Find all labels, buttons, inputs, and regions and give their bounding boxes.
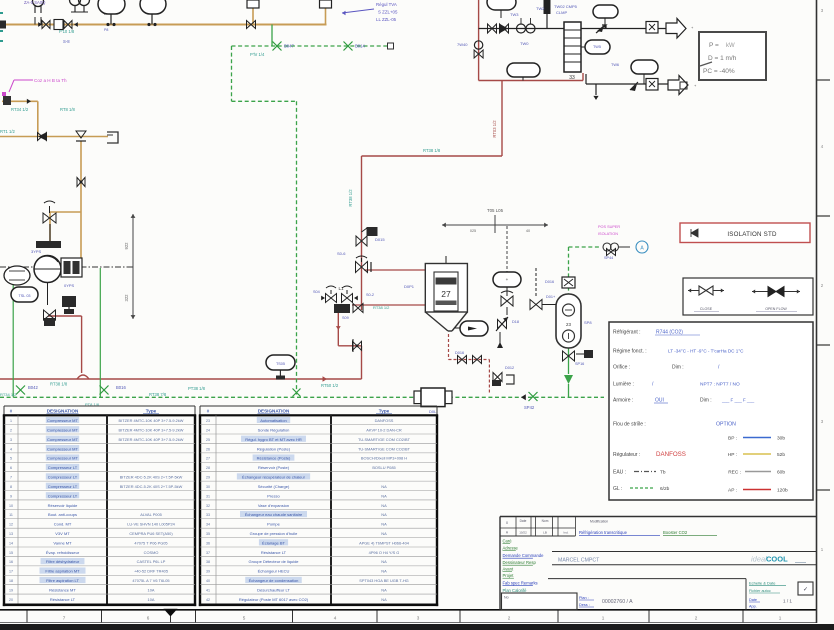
svg-text:Booster CO2: Booster CO2 [663, 530, 688, 535]
svg-text:REC :: REC : [728, 470, 741, 476]
svg-text:NA: NA [381, 531, 387, 536]
svg-text:Avant: Avant [503, 567, 514, 572]
svg-text:10A: 10A [148, 587, 155, 592]
svg-text:BITZER 4MTC-10K 40P 3+7.5-9.2k: BITZER 4MTC-10K 40P 3+7.5-9.2kW [119, 437, 184, 442]
svg-text:No: No [504, 596, 509, 600]
svg-text:9: 9 [10, 494, 12, 498]
svg-text:Filtre aspiration LT: Filtre aspiration LT [46, 578, 79, 583]
svg-text:Orifice :: Orifice : [613, 365, 630, 371]
svg-text:34: 34 [206, 523, 210, 527]
svg-text:1: 1 [602, 616, 605, 621]
svg-text:24: 24 [206, 428, 210, 432]
svg-text:RT8 1/8: RT8 1/8 [60, 107, 75, 112]
svg-text:Armoire :: Armoire : [613, 398, 633, 404]
svg-text:Plan :: Plan : [579, 596, 589, 600]
svg-text:NA: NA [381, 503, 387, 508]
svg-text:Date: Date [520, 519, 527, 523]
svg-text:Type: Type [379, 408, 390, 413]
svg-text:ZA-0 SA0Q: ZA-0 SA0Q [24, 0, 46, 5]
svg-text:Lumière :: Lumière : [613, 382, 634, 388]
svg-text:42: 42 [206, 598, 210, 602]
svg-text:TW5: TW5 [593, 45, 601, 49]
svg-text:Pompe: Pompe [267, 522, 280, 527]
svg-text:+40-52 DRF TR405: +40-52 DRF TR405 [134, 569, 168, 574]
svg-text:31: 31 [206, 494, 210, 498]
svg-text:ALVAL P005: ALVAL P005 [140, 512, 162, 517]
svg-text:0YPS: 0YPS [64, 283, 75, 288]
svg-text:15: 15 [9, 551, 13, 555]
svg-text:17: 17 [9, 570, 13, 574]
svg-text:DANFOSS: DANFOSS [375, 418, 394, 423]
svg-text:TW2: TW2 [536, 6, 545, 11]
svg-text:38: 38 [206, 560, 210, 564]
svg-text:4: 4 [10, 447, 12, 451]
svg-text:NA: NA [381, 522, 387, 527]
svg-text:25: 25 [206, 438, 210, 442]
svg-text:27: 27 [206, 457, 210, 461]
svg-text:S0-2: S0-2 [366, 293, 374, 297]
svg-text:Compresseur LT: Compresseur LT [48, 484, 78, 489]
svg-text:NA: NA [381, 493, 387, 498]
svg-text:23: 23 [566, 322, 571, 327]
svg-text:Tb: Tb [660, 470, 666, 476]
svg-text:SP42: SP42 [524, 405, 535, 410]
svg-text:B016: B016 [116, 385, 126, 390]
svg-text:DANFOSS: DANFOSS [656, 451, 686, 458]
svg-text:BITZER 4MTC-10K 40P 3+7.5-9.2k: BITZER 4MTC-10K 40P 3+7.5-9.2kW [119, 418, 184, 423]
svg-text:P'10 1/8: P'10 1/8 [59, 29, 75, 34]
svg-text:Nom: Nom [542, 519, 549, 523]
svg-text:D015: D015 [375, 237, 385, 242]
svg-text:Régime fonct. :: Régime fonct. : [613, 349, 647, 355]
svg-text:Résistance MT: Résistance MT [49, 587, 76, 592]
svg-text:SPT043 HGA BE UGB T-HG: SPT043 HGA BE UGB T-HG [359, 578, 408, 583]
svg-text:36: 36 [206, 541, 210, 545]
svg-text:RT38 1/8: RT38 1/8 [50, 382, 68, 387]
svg-text:CEMPRA PU6 SET(A50): CEMPRA PU6 SET(A50) [129, 531, 173, 536]
svg-text:OUI: OUI [655, 398, 664, 404]
svg-text:Type: Type [146, 408, 157, 413]
svg-text:Compresseur LT: Compresseur LT [48, 465, 78, 470]
svg-text:30b: 30b [777, 436, 785, 442]
svg-text:CLMP: CLMP [556, 10, 567, 15]
svg-text:COSMO: COSMO [144, 550, 159, 555]
svg-text:Filtre aspiration MT: Filtre aspiration MT [45, 569, 80, 574]
svg-text:Ind.: Ind. [563, 531, 568, 535]
svg-text:Dim :: Dim : [700, 398, 712, 404]
svg-text:2: 2 [508, 616, 511, 621]
svg-text:12: 12 [9, 523, 13, 527]
svg-text:Fichier autoc: Fichier autoc [749, 589, 771, 593]
svg-text:TSL 03: TSL 03 [18, 294, 30, 298]
svg-text:6: 6 [147, 616, 150, 621]
svg-text:ISOLATION: ISOLATION [598, 232, 618, 236]
svg-text:RT03 1/2: RT03 1/2 [492, 120, 497, 138]
svg-text:6: 6 [10, 466, 12, 470]
svg-text:B014: B014 [355, 44, 365, 49]
svg-text:Vanne MT: Vanne MT [53, 540, 72, 545]
svg-text:D016: D016 [545, 280, 554, 284]
svg-text:26: 26 [206, 447, 210, 451]
svg-text:Compresseur LT: Compresseur LT [48, 493, 78, 498]
svg-text:D18: D18 [512, 320, 519, 324]
svg-text:Cond. MT: Cond. MT [54, 522, 72, 527]
svg-text:3: 3 [10, 438, 12, 442]
svg-text:LL ZZL-05: LL ZZL-05 [376, 17, 397, 22]
svg-text:RT1 1/2: RT1 1/2 [0, 129, 15, 134]
svg-text:16: 16 [9, 560, 13, 564]
svg-text:Réfrigération transcritique: Réfrigération transcritique [579, 530, 628, 535]
svg-text:47075 T P06 PG05: 47075 T P06 PG05 [134, 540, 167, 545]
svg-text:40: 40 [206, 579, 210, 583]
svg-text:NA: NA [381, 597, 387, 602]
svg-text:OPEN FLOW: OPEN FLOW [765, 307, 787, 311]
svg-text:SP44: SP44 [604, 256, 613, 260]
svg-text:5: 5 [243, 616, 246, 621]
svg-text:Régulation (Poste): Régulation (Poste) [257, 446, 291, 451]
svg-text:Régulateur (Poste MT 6017 avec: Régulateur (Poste MT 6017 avec CO2) [239, 597, 309, 602]
svg-text:ideal: ideal [751, 555, 767, 564]
svg-text:Compresseur MT: Compresseur MT [47, 418, 78, 423]
svg-text:BITZER 4DC-5.2K 40S 2+7.5P-5kW: BITZER 4DC-5.2K 40S 2+7.5P-5kW [120, 475, 183, 480]
svg-text:P =: P = [709, 42, 719, 49]
svg-text:Sonde Régulation: Sonde Régulation [258, 427, 290, 432]
svg-text:B042: B042 [28, 385, 38, 390]
svg-text:kW: kW [726, 43, 735, 49]
svg-text:5: 5 [10, 457, 12, 461]
svg-text:+: + [506, 277, 509, 282]
svg-text:33: 33 [569, 75, 575, 81]
svg-text:D01+: D01+ [546, 295, 556, 299]
svg-text:DESIGNATION: DESIGNATION [258, 408, 290, 413]
svg-text:30: 30 [206, 485, 210, 489]
svg-text:BP :: BP : [728, 436, 737, 442]
svg-text:Vase d'expansion: Vase d'expansion [258, 503, 289, 508]
svg-text:COOL: COOL [766, 555, 788, 564]
svg-text:RT38 1/8: RT38 1/8 [423, 148, 441, 153]
svg-text:6/2b: 6/2b [660, 486, 670, 492]
svg-text:47075L A 7 V6 T6L05: 47075L A 7 V6 T6L05 [132, 578, 169, 583]
svg-text:T05 L05: T05 L05 [487, 208, 504, 213]
svg-text:___ F ___ F ___: ___ F ___ F ___ [721, 398, 755, 403]
svg-text:7: 7 [63, 616, 66, 621]
svg-text:TW3: TW3 [510, 12, 519, 17]
svg-text:P8: P8 [104, 28, 108, 32]
svg-text:MARCEL CMPCT: MARCEL CMPCT [558, 558, 600, 564]
svg-text:P'hr 1/4: P'hr 1/4 [250, 52, 265, 57]
svg-text:APGE 4) TbMPST H066-404: APGE 4) TbMPST H066-404 [359, 540, 410, 545]
svg-text:RT38 1/2: RT38 1/2 [348, 189, 353, 207]
svg-text:52b: 52b [777, 452, 785, 458]
svg-text:Presso: Presso [267, 493, 280, 498]
svg-text:Coz a H B ta Th: Coz a H B ta Th [34, 78, 67, 83]
svg-text:1: 1 [779, 616, 782, 621]
svg-text:S04: S04 [313, 290, 320, 294]
svg-text:Groupe de pression d'huile: Groupe de pression d'huile [250, 531, 298, 536]
svg-text:BOSCH/Dixell MP3+098 H: BOSCH/Dixell MP3+098 H [361, 456, 407, 461]
svg-text:SP16: SP16 [575, 362, 584, 366]
svg-text:NA: NA [381, 587, 387, 592]
svg-text:Date: Date [749, 598, 757, 602]
svg-text:2: 2 [10, 428, 12, 432]
svg-text:S ZZL+05: S ZZL+05 [378, 10, 398, 15]
svg-text:RT34 1/2: RT34 1/2 [11, 107, 29, 112]
svg-text:Compresseur MT: Compresseur MT [47, 427, 78, 432]
svg-text:App.: App. [749, 605, 757, 609]
svg-text:Évap. refroidisseur: Évap. refroidisseur [46, 550, 80, 555]
svg-text:AP :: AP : [728, 488, 737, 494]
svg-text:NA: NA [381, 559, 387, 564]
svg-text:D0L: D0L [429, 409, 437, 414]
svg-text:27: 27 [441, 289, 451, 299]
svg-text:SP8: SP8 [584, 320, 592, 325]
svg-text:Sécurité (Charge): Sécurité (Charge) [258, 484, 290, 489]
svg-text:Dess :: Dess : [579, 603, 590, 607]
svg-text:Régul. hygro BT et MT avec HR: Régul. hygro BT et MT avec HR [245, 437, 302, 442]
svg-text:DESIGNATION: DESIGNATION [47, 408, 79, 413]
svg-text:4P96 O H4 Y/S G: 4P96 O H4 Y/S G [369, 550, 400, 555]
svg-text:29: 29 [206, 476, 210, 480]
svg-text:Réservoir liquide: Réservoir liquide [48, 503, 79, 508]
svg-text:Echelle & Date: Echelle & Date [749, 581, 776, 586]
svg-text:Échangeur de condensation: Échangeur de condensation [249, 578, 299, 583]
svg-text:00002760 / A: 00002760 / A [602, 599, 633, 605]
svg-text:Plan Calorifé: Plan Calorifé [503, 588, 528, 593]
svg-text:23: 23 [206, 419, 210, 423]
svg-text:37: 37 [206, 551, 210, 555]
svg-text:D0P1: D0P1 [404, 284, 415, 289]
svg-text:Régul TVA: Régul TVA [376, 2, 397, 7]
svg-text:TS05: TS05 [276, 362, 285, 366]
svg-text:RT38 7/8: RT38 7/8 [149, 392, 167, 397]
svg-text:R744 (CO2): R744 (CO2) [656, 330, 683, 336]
svg-text:S-8: S-8 [63, 39, 70, 44]
svg-text:LU-VE SHVN 140 L005P24: LU-VE SHVN 140 L005P24 [127, 522, 175, 527]
svg-text:CASTEL P6L LP: CASTEL P6L LP [137, 559, 166, 564]
svg-text:13: 13 [9, 532, 13, 536]
svg-text:Fab spec Remarks: Fab spec Remarks [503, 581, 538, 586]
svg-text:2: 2 [695, 616, 698, 621]
svg-text:4: 4 [334, 616, 337, 621]
svg-text:TW0: TW0 [520, 41, 529, 46]
svg-text:Éclairage BT: Éclairage BT [262, 540, 285, 545]
svg-text:GL :: GL : [613, 486, 622, 492]
svg-text:Compresseur LT: Compresseur LT [48, 475, 78, 480]
svg-text:✓: ✓ [803, 587, 808, 593]
svg-text:HP :: HP : [728, 452, 737, 458]
svg-text:Filtre déshydrateur: Filtre déshydrateur [46, 559, 80, 564]
svg-text:Compresseur MT: Compresseur MT [47, 437, 78, 442]
svg-text:Demande Commande: Demande Commande [503, 553, 545, 558]
svg-text:Résistance LT: Résistance LT [50, 597, 76, 602]
svg-text:Échangeur HECU: Échangeur HECU [258, 569, 290, 574]
svg-text:41: 41 [206, 588, 210, 592]
svg-text:Échangeur eau chaude sanitaire: Échangeur eau chaude sanitaire [245, 512, 303, 517]
svg-text:Flou de striîle :: Flou de striîle : [613, 422, 646, 428]
svg-text:28: 28 [206, 466, 210, 470]
svg-text:1 / 1: 1 / 1 [783, 599, 792, 604]
svg-text:18: 18 [9, 579, 13, 583]
svg-text:10/22: 10/22 [519, 531, 527, 535]
svg-text:Modification: Modification [590, 520, 608, 524]
svg-text:BITZER 4MTC-10K 40P 3+7.5-9.2k: BITZER 4MTC-10K 40P 3+7.5-9.2kW [119, 427, 184, 432]
svg-text:39: 39 [206, 570, 210, 574]
svg-text:NA: NA [381, 484, 387, 489]
svg-text:NPT7 : NPT7 / NO: NPT7 : NPT7 / NO [700, 382, 740, 388]
svg-text:120b: 120b [777, 488, 788, 494]
svg-text:TW6: TW6 [611, 63, 619, 67]
svg-text:TU-SMART/GE COM CO2/BT: TU-SMART/GE COM CO2/BT [358, 446, 411, 451]
svg-text:Résistance (Poste): Résistance (Poste) [257, 456, 291, 461]
svg-text:ISOLATION STD: ISOLATION STD [727, 231, 777, 238]
svg-text:EAU :: EAU : [613, 470, 626, 476]
svg-text:D = 1 m/h: D = 1 m/h [708, 55, 737, 62]
svg-text:10A: 10A [148, 597, 155, 602]
svg-text:Compresseur MT: Compresseur MT [47, 456, 78, 461]
svg-text:Résistance LT: Résistance LT [261, 550, 287, 555]
svg-text:33: 33 [206, 513, 210, 517]
svg-text:RT50 1/2: RT50 1/2 [321, 383, 339, 388]
svg-text:AKVP 10-2 DAN-CR: AKVP 10-2 DAN-CR [366, 427, 402, 432]
svg-text:D012: D012 [505, 366, 514, 370]
svg-text:40: 40 [526, 229, 530, 233]
svg-text:025: 025 [470, 229, 476, 233]
svg-text:Échangeur récupérateur de chal: Échangeur récupérateur de chaleur [242, 475, 306, 480]
svg-text:Projet: Projet [503, 573, 515, 578]
svg-text:PC = -40%: PC = -40% [703, 68, 735, 75]
svg-text:D016: D016 [455, 351, 464, 355]
svg-text:14: 14 [9, 541, 13, 545]
svg-text:B047: B047 [284, 44, 294, 49]
svg-text:0: 0 [506, 521, 508, 525]
svg-text:Compresseur MT: Compresseur MT [47, 446, 78, 451]
svg-text:19: 19 [9, 588, 13, 592]
svg-text:Groupe Détecteur de liquide: Groupe Détecteur de liquide [248, 559, 299, 564]
svg-text:10: 10 [9, 504, 13, 508]
svg-text:TU-SMART/GE COM CO2/BT: TU-SMART/GE COM CO2/BT [358, 437, 411, 442]
svg-text:OPTION: OPTION [716, 422, 736, 428]
svg-text:CLOSE: CLOSE [700, 307, 713, 311]
svg-text:S09: S09 [342, 316, 349, 320]
svg-text:3: 3 [417, 616, 420, 621]
svg-text:NA: NA [381, 569, 387, 574]
svg-text:8: 8 [10, 485, 12, 489]
svg-text:11: 11 [9, 513, 13, 517]
svg-text:POS SUPER: POS SUPER [598, 225, 620, 229]
svg-text:Réfrigérant :: Réfrigérant : [613, 330, 641, 336]
svg-text:Adresse: Adresse [503, 546, 519, 551]
svg-text:1: 1 [10, 419, 12, 423]
svg-text:Réservoir (Poste): Réservoir (Poste) [258, 465, 290, 470]
svg-text:3YPS: 3YPS [31, 249, 42, 254]
svg-text:LB: LB [543, 531, 547, 535]
svg-text:S0-6: S0-6 [337, 251, 346, 256]
svg-text:BITZER 4DC-5.2K 40S 2+7.5P-5kW: BITZER 4DC-5.2K 40S 2+7.5P-5kW [120, 484, 183, 489]
svg-text:Désurchauffeur LT: Désurchauffeur LT [257, 587, 290, 592]
svg-text:NA: NA [381, 512, 387, 517]
svg-text:7: 7 [10, 476, 12, 480]
svg-text:TW02 CMP5: TW02 CMP5 [554, 4, 578, 9]
svg-text:Automatisation: Automatisation [260, 418, 286, 423]
svg-text:Régulateur :: Régulateur : [613, 452, 640, 458]
svg-text:322: 322 [124, 294, 129, 302]
svg-text:35: 35 [206, 532, 210, 536]
svg-text:Dessinateur Resp: Dessinateur Resp [503, 560, 537, 565]
svg-text:LT -34°C - HT -9°C - T'carHa D: LT -34°C - HT -9°C - T'carHa DC 1°C [668, 349, 744, 354]
svg-text:Caré: Caré [503, 539, 513, 544]
svg-text:60b: 60b [777, 470, 785, 476]
svg-text:PT38 1/8: PT38 1/8 [188, 386, 206, 391]
svg-text:BOSLU P085: BOSLU P085 [372, 465, 395, 470]
svg-text:7W40: 7W40 [457, 42, 468, 47]
svg-text:V3V MT: V3V MT [55, 531, 70, 536]
svg-text:32: 32 [206, 504, 210, 508]
svg-text:Dim :: Dim : [672, 365, 684, 371]
svg-text:RT34 1/2: RT34 1/2 [0, 392, 17, 397]
svg-text:922: 922 [124, 242, 129, 250]
svg-text:20: 20 [9, 598, 13, 602]
svg-text:RT38 1/2: RT38 1/2 [373, 305, 390, 310]
svg-text:Bout. anti-coups: Bout. anti-coups [48, 512, 77, 517]
